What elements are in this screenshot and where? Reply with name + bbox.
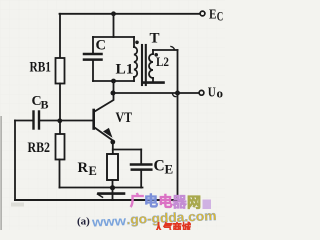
- capacitor CE: [131, 150, 151, 188]
- resistor RB2: [56, 121, 65, 188]
- svg-text:L1: L1: [116, 62, 134, 78]
- svg-text:www: www: [91, 213, 128, 230]
- terminal Uo: [199, 90, 204, 95]
- watermark site name chars: [130, 193, 211, 211]
- svg-text:T: T: [150, 31, 160, 47]
- wire bottom ground rail: [15, 199, 178, 201]
- wire collector/output rail: [113, 92, 199, 94]
- wire emitter node to rail: [112, 188, 114, 200]
- capacitor CB: [15, 112, 39, 129]
- svg-text:电: 电: [144, 193, 158, 209]
- svg-text:器: 器: [172, 194, 188, 210]
- svg-text:E: E: [89, 164, 97, 178]
- svg-text:RB2: RB2: [28, 140, 51, 156]
- svg-text:C: C: [96, 38, 106, 54]
- svg-text:广: 广: [130, 193, 144, 209]
- svg-text:C: C: [154, 158, 165, 175]
- watermark red chars bottom: [154, 221, 191, 235]
- wire tank bottom to collector node: [113, 81, 115, 93]
- node stray tick near output junction: [173, 94, 176, 97]
- wire tank feed from rail: [113, 14, 115, 37]
- LC tank loop wires: [93, 37, 134, 81]
- wire emitter common (inner bottom): [60, 187, 143, 189]
- node junction tank bottom: [111, 79, 116, 84]
- svg-text:R: R: [78, 160, 89, 176]
- inductor L2: [149, 50, 178, 81]
- svg-text:E: E: [209, 8, 217, 23]
- node L2 polarity dot: [154, 53, 158, 57]
- resistor RB1: [56, 14, 65, 121]
- node junction collector: [111, 91, 116, 96]
- node L2 corner tick: [171, 47, 175, 50]
- wire L2 output drop: [177, 50, 179, 200]
- node junction emitter ground: [110, 185, 115, 190]
- svg-text:(a): (a): [77, 216, 90, 228]
- svg-text:VT: VT: [116, 110, 133, 126]
- wire emitter down: [112, 141, 114, 154]
- svg-text:C: C: [217, 10, 224, 24]
- paper background: [0, 0, 225, 230]
- transistor VT: [94, 93, 114, 141]
- node junction base/RB1/RB2: [57, 118, 62, 123]
- svg-text:E: E: [165, 162, 174, 177]
- node junction rail-tank: [111, 11, 116, 16]
- scan edge artifact left: [0, 116, 2, 230]
- wire emitter to CE: [113, 149, 141, 151]
- node junction emitter: [110, 140, 115, 145]
- wire left feedback branch: [14, 121, 16, 201]
- svg-text:人气商城: 人气商城: [154, 221, 191, 231]
- svg-text:o: o: [217, 87, 224, 101]
- svg-text:L2: L2: [156, 55, 169, 69]
- ground bar L2 return: [144, 81, 164, 84]
- svg-text:电: 电: [159, 194, 173, 210]
- wire top supply rail: [60, 13, 201, 15]
- watermark url: [91, 208, 217, 230]
- node L1 polarity dot: [135, 41, 139, 45]
- wire base rail: [40, 120, 93, 122]
- ground bar below RE: [99, 192, 125, 195]
- svg-text:U: U: [208, 86, 216, 101]
- resistor RE: [107, 154, 118, 188]
- svg-text:RB1: RB1: [30, 60, 52, 76]
- capacitor C (tank): [84, 54, 102, 60]
- transformer T core: [142, 45, 146, 85]
- inductor L1: [134, 37, 137, 81]
- terminal EC: [200, 11, 205, 16]
- svg-text:B: B: [41, 98, 49, 112]
- node junction output drop: [175, 91, 180, 96]
- ground bar tail tick: [98, 194, 103, 197]
